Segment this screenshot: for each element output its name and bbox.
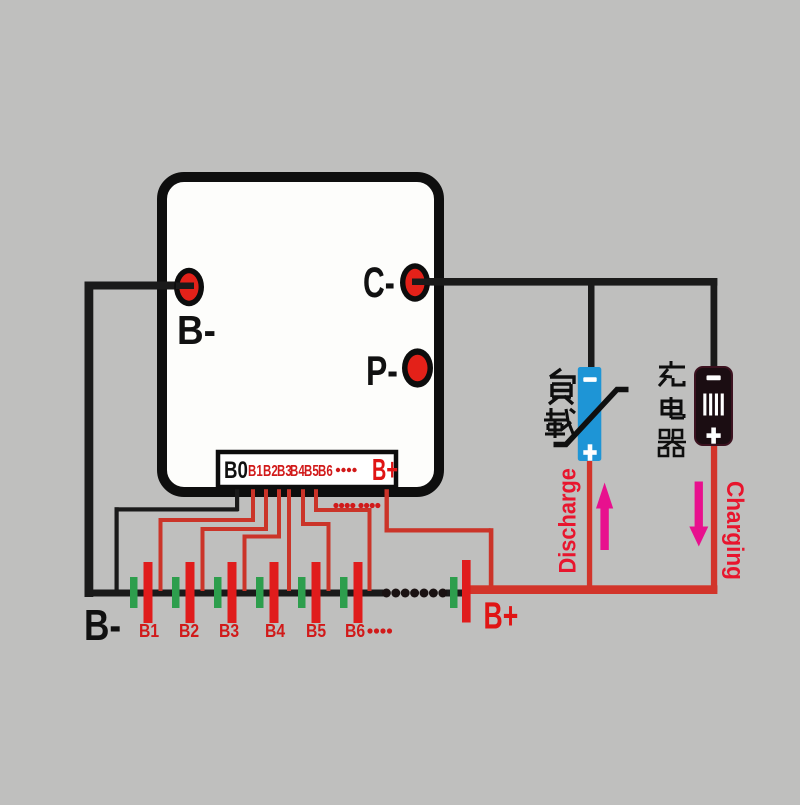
cell row ellipsis dots (367, 628, 392, 633)
svg-text:B-: B- (84, 601, 121, 650)
wire B0 (black sense wire) (115, 478, 240, 594)
wire B5 sense (301, 475, 331, 591)
charger minus mark (707, 375, 721, 380)
load minus mark (583, 377, 596, 382)
svg-text:B1: B1 (139, 620, 160, 642)
svg-text:B+: B+ (484, 594, 519, 637)
svg-text:B-: B- (177, 308, 216, 353)
wire B3 sense (243, 475, 282, 591)
arrow charging (down) (689, 482, 708, 547)
wire B1 sense (159, 475, 256, 591)
load LD1 (blue battery body) (578, 367, 602, 461)
svg-text:B0: B0 (224, 457, 248, 484)
wire charger positive riser (711, 444, 717, 592)
wire load positive riser (587, 460, 592, 592)
wire B- horizontal (terminal to left edge) (85, 282, 190, 290)
connector strip J1 (218, 452, 396, 487)
svg-text:B1: B1 (248, 461, 263, 479)
svg-text:B5: B5 (306, 620, 327, 642)
ellipsis dots on battery bus (382, 589, 447, 598)
battery cell B4 (256, 562, 279, 623)
wire drop to charger (711, 278, 718, 368)
arrow discharge (up) (596, 483, 613, 551)
load plus mark (583, 444, 596, 460)
svg-text:B6: B6 (345, 620, 365, 642)
wire B2 sense (201, 475, 269, 591)
svg-text:B2: B2 (179, 620, 199, 642)
wire B+ bus (red bottom horizontal) (468, 585, 718, 594)
wire battery bus (bottom horizontal) (85, 590, 384, 597)
terminal C- (400, 263, 430, 301)
red dot row below board (333, 503, 380, 508)
charger grille bars (703, 394, 724, 416)
wire battery bus short segment before last cell (446, 590, 463, 597)
svg-text:B5: B5 (304, 461, 319, 479)
svg-text:B4: B4 (290, 461, 305, 479)
label 负 (load char 1) (549, 369, 574, 404)
label 电 (charger char 2) (662, 397, 684, 418)
load switch slash (554, 390, 629, 445)
battery cell B1 (130, 562, 153, 623)
svg-text:B3: B3 (219, 620, 239, 642)
battery cell B2 (172, 562, 195, 623)
label 载 (load char 2) (544, 408, 575, 438)
svg-text:B+: B+ (372, 451, 398, 487)
battery cell Bn (last) (450, 560, 471, 623)
terminal B- (174, 268, 204, 306)
svg-text:P-: P- (366, 347, 398, 394)
label 充 (charger char 1) (659, 361, 685, 386)
charger plus mark (707, 428, 721, 444)
wire drop to load (588, 278, 595, 368)
svg-text:B4: B4 (265, 620, 286, 642)
BMS board body U1 (162, 177, 439, 492)
wire B+ from strip (385, 478, 494, 590)
charger CH1 (dark body) (695, 367, 732, 445)
wire B6 sense (314, 475, 372, 591)
strip ellipsis dots (336, 468, 357, 472)
svg-text:Charging: Charging (722, 481, 749, 580)
wire C- to top right (415, 278, 717, 286)
label 器 (charger char 3) (658, 430, 686, 456)
svg-text:B2: B2 (263, 461, 278, 479)
svg-text:B6: B6 (318, 461, 333, 479)
battery cell B3 (214, 562, 237, 623)
wire B4 sense (287, 475, 291, 591)
battery cell B6 (340, 562, 363, 623)
svg-text:C-: C- (363, 258, 395, 307)
battery cell B5 (298, 562, 321, 623)
svg-text:Discharge: Discharge (553, 468, 580, 574)
terminal P- (402, 348, 433, 387)
wire B- left vertical (85, 282, 94, 598)
